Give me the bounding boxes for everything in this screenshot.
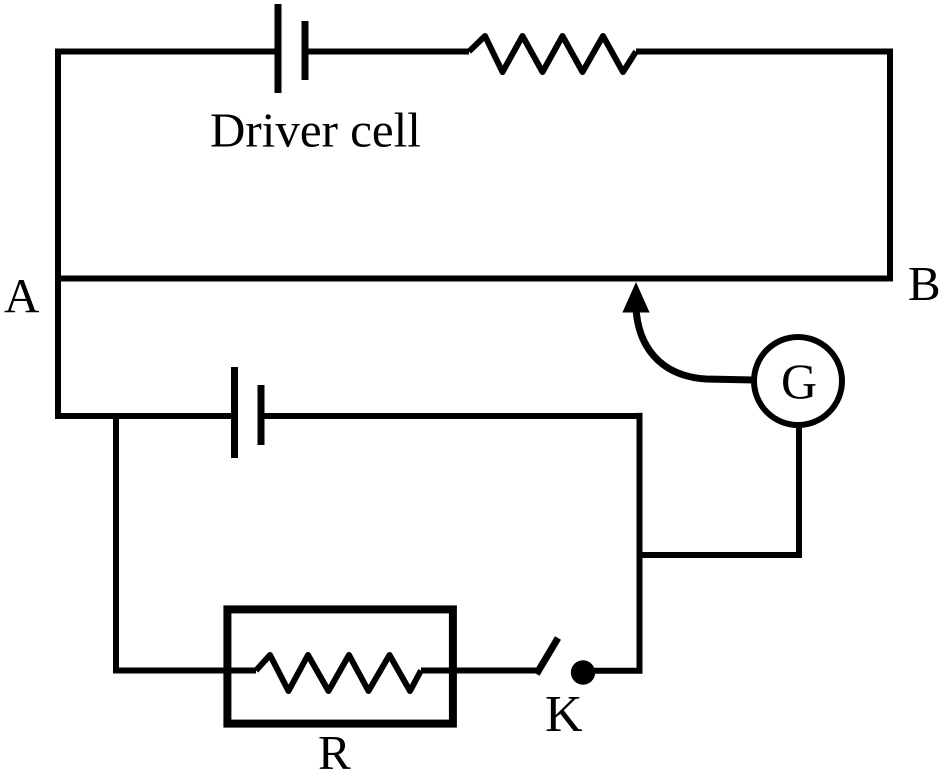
wire: top loop left vertical (x=58) [55,49,61,420]
switch blade [537,638,559,674]
battery: driver cell long plate [275,4,282,93]
jockey arrow curved shaft [636,308,754,380]
wire: from G down and left (x=799 to x=641 at y=553) [637,428,800,555]
resistance box R rectangle [227,609,453,723]
svg-text:Driver cell: Driver cell [210,103,421,158]
battery: driver cell short plate [302,21,309,80]
galvanometer G circle [754,337,842,425]
wire: from box to switch (y=671) [421,668,538,674]
wire: from dot to right vertical (y=671) [590,668,643,674]
wire: top loop right vertical (x=890) [887,49,893,282]
wire: secondary loop top horizontal left (y=416) [58,413,234,419]
jockey arrow head [622,282,649,313]
svg-text:G: G [781,353,817,409]
wire: secondary loop top horizontal right (y=416) [261,413,643,419]
wire: top horizontal left segment to driver cell [55,49,278,55]
svg-text:A: A [4,268,40,323]
wire: bottom horizontal into resistance box (y=671) [113,668,256,674]
wire: secondary loop right vertical (x=641) [637,413,643,674]
resistor: top zigzag [469,36,636,72]
svg-text:B: B [908,256,940,311]
battery: secondary cell short plate [258,385,265,445]
wire: junction vertical (x=116) [113,416,119,674]
wire: potentiometer wire A-B (y=278) [55,276,893,282]
resistor: bottom zigzag inside box [256,655,421,691]
svg-text:K: K [545,686,583,743]
wire: top horizontal from driver cell to resistor [305,49,469,55]
switch contact dot K [571,660,595,684]
wire: top horizontal right segment [636,49,893,55]
battery: secondary cell long plate [231,367,238,458]
svg-text:R: R [318,725,351,774]
